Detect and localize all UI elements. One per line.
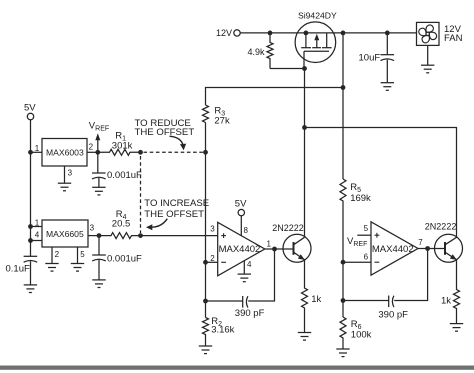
svg-text:169k: 169k — [350, 193, 371, 204]
transistor Q2 2N2222 — [425, 222, 463, 263]
svg-text:3.16k: 3.16k — [211, 324, 234, 335]
svg-text:MAX6003: MAX6003 — [46, 147, 84, 157]
svg-text:0.1uF: 0.1uF — [6, 264, 30, 275]
node R3 bottom — [203, 150, 208, 155]
ground 10uF — [381, 83, 394, 91]
pin 2 — [87, 151, 98, 153]
svg-text:Si9424DY: Si9424DY — [298, 11, 337, 21]
IC U1 MAX6003 — [31, 139, 98, 184]
wire drain column — [342, 33, 344, 179]
svg-text:4: 4 — [247, 260, 252, 269]
svg-text:MAX4402: MAX4402 — [372, 244, 414, 255]
capacitor 0.001uF first — [92, 152, 142, 187]
source contact — [305, 33, 307, 48]
ground R6 — [336, 349, 349, 357]
drain contact — [326, 33, 328, 48]
resistor R3 27k — [203, 105, 230, 127]
capacitor 0.1uF — [6, 256, 38, 285]
node rail pin1 6003 — [28, 150, 33, 155]
ground R2 — [199, 346, 212, 354]
svg-text:1: 1 — [267, 239, 272, 248]
node op1 output — [272, 247, 277, 252]
svg-text:2: 2 — [89, 143, 94, 152]
pin 1 — [31, 226, 43, 228]
wire branch row to Q2 collector — [305, 128, 457, 239]
svg-text:THE OFFSET: THE OFFSET — [144, 209, 204, 220]
svg-text:1k: 1k — [311, 294, 321, 305]
wire op2 output to Q2 base — [418, 248, 445, 250]
resistor 1k Q1 — [302, 260, 322, 333]
svg-text:2N2222: 2N2222 — [272, 223, 304, 233]
node pin2 6003 — [95, 150, 100, 155]
node source — [304, 31, 309, 36]
wire op1 pin2 — [206, 261, 218, 263]
svg-text:12V: 12V — [216, 28, 232, 38]
ground Q1 emitter — [298, 333, 311, 341]
node R1 output — [138, 150, 143, 155]
svg-text:1k: 1k — [441, 296, 451, 307]
svg-text:TO INCREASE: TO INCREASE — [144, 198, 209, 209]
gate plate — [304, 50, 329, 52]
pin 1 — [31, 151, 43, 153]
wire gate plate to gate node — [303, 51, 305, 68]
svg-text:THE OFFSET: THE OFFSET — [135, 127, 195, 138]
svg-text:0.001uF: 0.001uF — [107, 254, 142, 265]
node 4.9k top — [268, 31, 273, 36]
pin 5 — [77, 247, 79, 264]
node op1 pin2 — [203, 260, 208, 265]
node rail pin1 6605 — [28, 224, 33, 229]
wire dashed vertical offset link — [140, 156, 142, 233]
node R2 top — [203, 299, 208, 304]
svg-text:FAN: FAN — [444, 33, 463, 44]
node op2 pin6 — [341, 260, 346, 265]
svg-text:390 pF: 390 pF — [235, 308, 265, 319]
svg-text:5V: 5V — [235, 198, 247, 209]
wire op1 pin4 — [243, 261, 245, 274]
svg-text:6: 6 — [364, 252, 369, 261]
resistor R6 100k — [340, 317, 372, 349]
resistor R5 169k — [340, 179, 371, 317]
resistor 1k Q2 — [441, 260, 460, 324]
svg-text:1: 1 — [35, 144, 40, 153]
svg-text:10uF: 10uF — [359, 53, 381, 64]
wire 390pF feedback op1 — [248, 249, 274, 301]
node gate — [302, 66, 307, 71]
terminal 5V op1 — [235, 198, 247, 236]
node VREF arrow — [89, 120, 109, 152]
wire R3 top row — [206, 88, 344, 106]
node 10uF top — [385, 31, 390, 36]
op-amp U3B MAX4402 — [364, 222, 424, 275]
svg-text:27k: 27k — [214, 116, 230, 127]
node R4 output — [138, 233, 143, 238]
terminal 5V left — [24, 102, 36, 119]
svg-text:1: 1 — [35, 219, 40, 228]
wire R4 node to op-amp pin3 — [141, 235, 218, 237]
IC U2 MAX6605 — [31, 219, 100, 264]
resistor R1 301k — [98, 131, 141, 156]
node gate column branch — [302, 125, 307, 130]
bottom border bar — [0, 366, 474, 370]
capacitor 390pF first — [206, 296, 265, 319]
svg-text:MAX4402: MAX4402 — [219, 244, 261, 255]
svg-text:7: 7 — [418, 238, 423, 247]
ground MAX6003 pin3 — [58, 183, 71, 191]
svg-text:2: 2 — [55, 250, 60, 259]
svg-text:4.9k: 4.9k — [248, 47, 266, 57]
wire 390pF feedback op2 — [394, 249, 427, 301]
pin 3 — [88, 235, 99, 237]
node pin3 6605 — [97, 233, 102, 238]
svg-text:2: 2 — [210, 254, 215, 263]
svg-text:MAX6605: MAX6605 — [46, 229, 84, 239]
capacitor 390pF second — [343, 296, 408, 321]
pin 4 — [31, 240, 43, 242]
node drain junction — [341, 31, 346, 36]
ground 6605 pin5 — [71, 264, 84, 272]
fan 12V FAN — [417, 22, 463, 65]
transistor Q1 2N2222 — [272, 223, 311, 262]
resistor R4 20.5 — [99, 209, 141, 238]
svg-text:3: 3 — [90, 223, 95, 232]
wire op1 output to Q1 base — [265, 248, 294, 250]
svg-text:3: 3 — [210, 224, 215, 233]
svg-text:0.001uF: 0.001uF — [107, 170, 142, 181]
node rail pin4 6605 — [28, 238, 33, 243]
node op2 output — [425, 246, 430, 251]
svg-text:VREF: VREF — [89, 120, 109, 132]
terminal 12V — [216, 28, 240, 38]
resistor R2 3.16k — [203, 316, 235, 346]
ground left rail — [24, 285, 37, 293]
ground 0.001uF second — [92, 280, 105, 288]
op-amp U3A MAX4402 — [210, 222, 271, 275]
svg-text:VREF: VREF — [347, 236, 367, 248]
wire R3 bottom to node — [205, 123, 207, 153]
arrow increase — [146, 219, 167, 231]
svg-text:301k: 301k — [112, 140, 133, 151]
svg-text:5: 5 — [80, 250, 85, 259]
wire op2 pin5 stub VREF — [347, 235, 371, 248]
wire 4.9k bottom to gate node — [270, 68, 305, 70]
label TO REDUCE THE OFFSET — [135, 118, 195, 138]
capacitor 10uF — [359, 33, 395, 83]
wire left rail — [30, 120, 32, 257]
ground op1 pin4 — [238, 274, 251, 282]
ground 6605 pin2 — [45, 264, 58, 272]
label TO INCREASE THE OFFSET — [144, 198, 209, 220]
wire R3 column down — [205, 152, 207, 317]
body arrow — [316, 37, 318, 48]
svg-text:5V: 5V — [24, 102, 36, 113]
transistor Q-MOSFET Si9424DY — [295, 11, 337, 63]
wire dashed horizontal offset link — [144, 151, 206, 153]
wire gate column down to Q1 collector — [304, 69, 306, 238]
ground Q2 emitter — [450, 324, 463, 332]
wire op2 pin6 — [343, 261, 371, 263]
ground fan — [421, 65, 434, 73]
svg-text:3: 3 — [68, 168, 73, 177]
pin 2 — [51, 247, 53, 264]
node R6 top — [341, 298, 346, 303]
svg-text:2N2222: 2N2222 — [425, 222, 457, 232]
node drain column R3 row — [341, 85, 346, 90]
wire top rail — [240, 32, 416, 34]
capacitor 0.001uF second — [92, 236, 142, 280]
resistor 4.9k — [248, 33, 274, 69]
svg-text:20.5: 20.5 — [112, 219, 131, 230]
svg-text:5: 5 — [364, 224, 369, 233]
svg-text:4: 4 — [35, 231, 40, 240]
arrow reduce — [170, 136, 187, 150]
ground 0.001uF first — [92, 187, 105, 195]
svg-text:390 pF: 390 pF — [378, 310, 408, 321]
svg-text:8: 8 — [244, 226, 249, 235]
pin 3 — [64, 166, 66, 183]
svg-text:100k: 100k — [351, 329, 372, 340]
